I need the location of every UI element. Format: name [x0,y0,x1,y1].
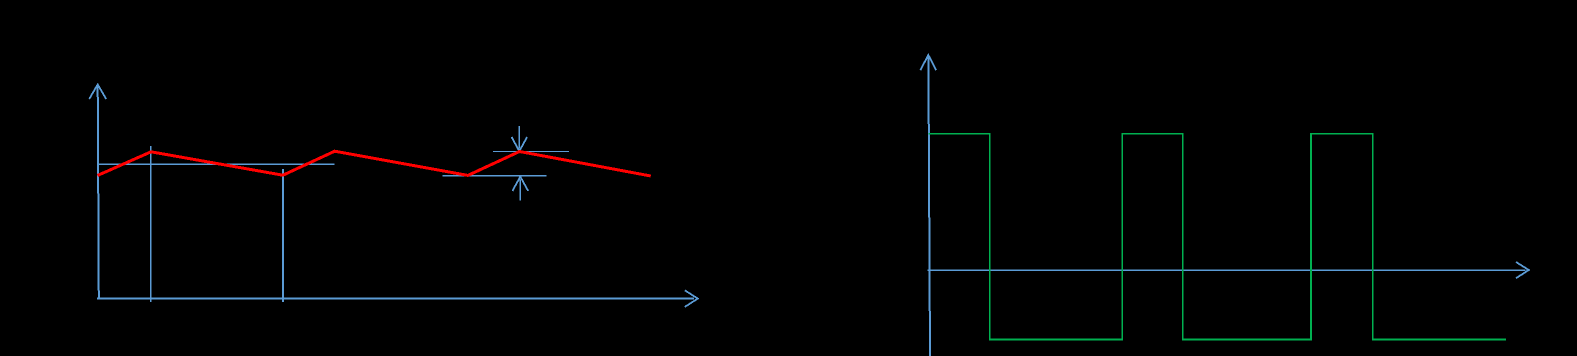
up arrow head [512,177,528,191]
average level line [97,163,335,165]
period marker line B [282,169,284,302]
down arrow shaft [518,126,520,149]
left plot y-axis arrowhead [89,85,106,100]
right plot x-axis [928,269,1526,271]
down arrow head [512,137,527,151]
left plot x-axis arrowhead [685,290,698,307]
left plot y-axis [98,86,99,299]
up arrow shaft [519,180,521,201]
ripple peak level line [493,150,569,152]
period marker line A [150,146,152,302]
ripple waveform (red) [98,151,651,176]
ripple trough level line [443,175,547,177]
right plot x-axis arrowhead [1516,262,1529,278]
right plot y-axis [928,57,930,356]
left plot x-axis [97,297,694,299]
switching square wave (green) [929,134,1507,340]
right plot y-axis arrowhead [920,55,936,70]
